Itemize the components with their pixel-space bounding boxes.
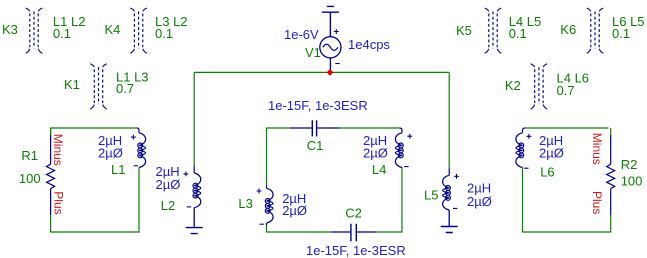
svg-text:2µØ: 2µØ (156, 177, 181, 192)
svg-text:C1: C1 (307, 138, 324, 153)
svg-text:1e4cps: 1e4cps (348, 37, 390, 52)
svg-text:2µØ: 2µØ (282, 203, 307, 218)
svg-text:0.7: 0.7 (557, 83, 575, 98)
svg-text:1e-15F, 1e-3ESR: 1e-15F, 1e-3ESR (306, 243, 406, 258)
svg-text:K6: K6 (560, 22, 576, 37)
svg-text:L6: L6 (540, 165, 554, 180)
svg-text:0.1: 0.1 (509, 26, 527, 41)
svg-text:L3: L3 (238, 196, 252, 211)
svg-text:0.7: 0.7 (116, 81, 134, 96)
svg-text:K2: K2 (505, 78, 521, 93)
svg-text:Plus: Plus (590, 191, 604, 214)
svg-text:V1: V1 (305, 45, 321, 60)
svg-text:K5: K5 (456, 23, 472, 38)
svg-text:K3: K3 (2, 22, 18, 37)
svg-text:2µØ: 2µØ (467, 194, 492, 209)
svg-text:1e-15F, 1e-3ESR: 1e-15F, 1e-3ESR (268, 98, 368, 113)
svg-text:R2: R2 (621, 157, 638, 172)
svg-text:L1: L1 (111, 162, 125, 177)
svg-text:L4: L4 (372, 162, 386, 177)
svg-text:100: 100 (19, 171, 41, 186)
svg-text:L2: L2 (161, 198, 175, 213)
svg-text:0.1: 0.1 (155, 26, 173, 41)
svg-text:L5: L5 (424, 188, 438, 203)
svg-text:1e-6V: 1e-6V (284, 27, 319, 42)
svg-text:100: 100 (621, 173, 643, 188)
svg-text:2µØ: 2µØ (98, 146, 123, 161)
svg-text:0.1: 0.1 (612, 26, 630, 41)
svg-text:Minus: Minus (51, 134, 65, 166)
svg-text:Minus: Minus (590, 133, 604, 165)
svg-text:0.1: 0.1 (53, 26, 71, 41)
svg-text:2µØ: 2µØ (363, 146, 388, 161)
svg-text:R1: R1 (21, 148, 38, 163)
svg-text:Plus: Plus (51, 191, 65, 214)
svg-text:K1: K1 (64, 77, 80, 92)
svg-text:2µØ: 2µØ (539, 146, 564, 161)
svg-text:K4: K4 (105, 22, 121, 37)
svg-text:C2: C2 (345, 206, 362, 221)
